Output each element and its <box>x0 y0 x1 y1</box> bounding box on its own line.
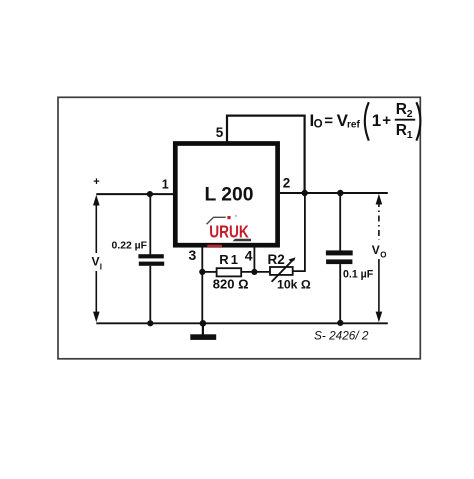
wire R2 right riser to node A <box>293 193 305 271</box>
svg-text:=: = <box>324 112 333 129</box>
junction dot C2 bottom <box>337 320 343 326</box>
potentiometer R2 body <box>270 267 293 275</box>
svg-text:2: 2 <box>283 176 291 191</box>
svg-text:R 1: R 1 <box>219 252 237 267</box>
svg-text:10k Ω: 10k Ω <box>277 277 311 291</box>
wire R1 right to pin4 <box>241 271 270 273</box>
URUK watermark <box>207 215 252 247</box>
wire C2 bottom riser <box>339 264 341 323</box>
svg-text:1: 1 <box>407 129 413 141</box>
formula Io = Vref (1 + R2/R1) <box>310 101 421 141</box>
wire C1 top riser <box>149 194 151 254</box>
junction node A dot <box>302 190 308 196</box>
wire pin1 <box>96 193 175 195</box>
capacitor C1 plates <box>138 254 163 258</box>
bottom wire <box>96 322 388 324</box>
svg-text:S- 2426/ 2: S- 2426/ 2 <box>314 329 369 343</box>
svg-text:L 200: L 200 <box>205 184 254 205</box>
wire pin3 riser <box>201 245 203 323</box>
junction dot pin4 <box>251 269 257 275</box>
wire C2 top riser <box>339 193 341 251</box>
svg-text:R2: R2 <box>268 252 285 267</box>
svg-text:2: 2 <box>407 108 413 120</box>
junction node C1 top <box>147 191 153 197</box>
svg-text:1: 1 <box>372 111 381 130</box>
svg-text:O: O <box>314 118 323 130</box>
ground <box>202 323 204 335</box>
junction dot C1 bottom <box>147 320 153 326</box>
svg-text:I: I <box>100 263 102 272</box>
Vo dimension arrow <box>376 194 383 322</box>
R2 arrow <box>272 262 291 282</box>
wire pin2 <box>280 192 388 194</box>
capacitor C2 plates <box>326 250 353 255</box>
border frame <box>58 97 420 359</box>
wire pin4 riser <box>253 245 255 272</box>
wire C1 bottom riser <box>149 266 151 324</box>
svg-text:+: + <box>382 112 391 129</box>
svg-text:V: V <box>92 255 100 269</box>
svg-text:1: 1 <box>162 178 169 192</box>
svg-text:O: O <box>380 251 386 260</box>
resistor R1 body <box>217 268 242 276</box>
svg-text:0.1 µF: 0.1 µF <box>343 269 374 281</box>
svg-text:5: 5 <box>216 125 224 140</box>
op-amp U1 (L200 regulator box) <box>175 144 277 246</box>
svg-text:R: R <box>396 101 407 118</box>
wire pin5 route (box top to node A riser) <box>227 116 305 193</box>
junction dot ground node <box>200 320 207 327</box>
Vi dimension arrow <box>93 195 100 322</box>
svg-text:R: R <box>396 122 407 139</box>
svg-text:+: + <box>93 176 99 188</box>
svg-text:820 Ω: 820 Ω <box>213 277 249 292</box>
junction dot C2 top <box>337 190 343 196</box>
svg-text:URUK: URUK <box>209 222 249 242</box>
svg-text:3: 3 <box>189 247 197 263</box>
svg-text:ref: ref <box>347 119 360 130</box>
svg-text:V: V <box>372 243 380 257</box>
svg-text:4: 4 <box>245 248 253 264</box>
svg-text:0.22 µF: 0.22 µF <box>112 240 147 251</box>
wire R1 left <box>202 271 216 273</box>
junction dot pin3/R1 <box>199 269 205 275</box>
